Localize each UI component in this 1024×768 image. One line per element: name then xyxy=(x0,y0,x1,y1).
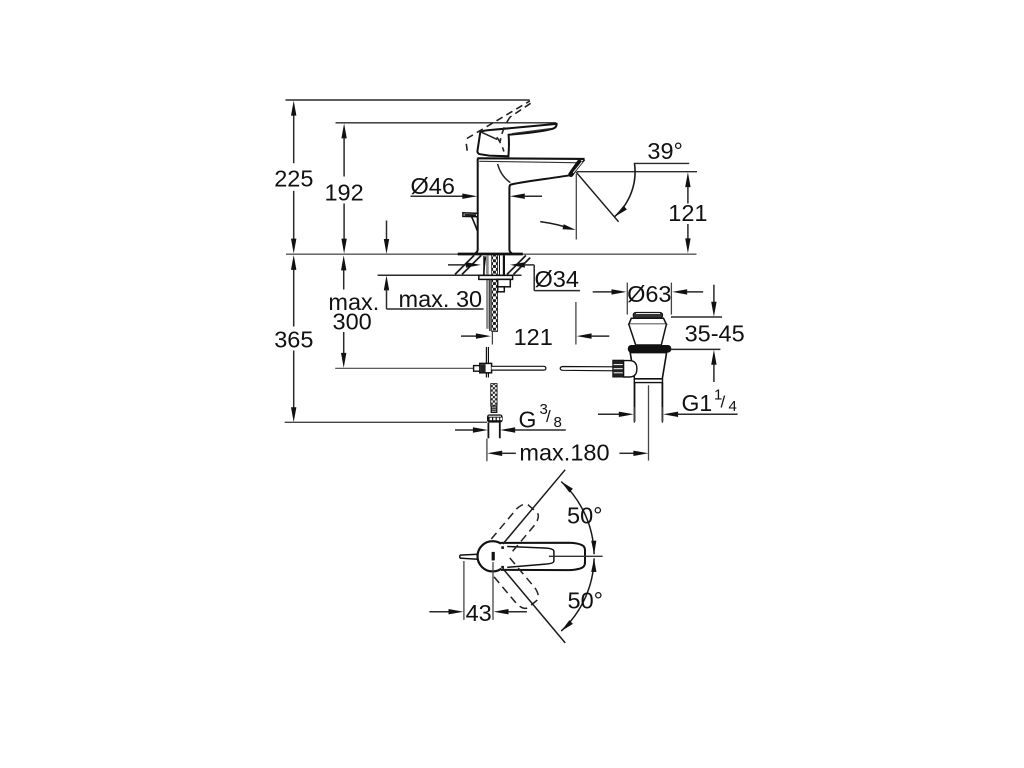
counter underside line xyxy=(378,274,522,276)
svg-text:/: / xyxy=(546,407,551,426)
svg-text:43: 43 xyxy=(466,600,492,626)
dimension 43 xyxy=(429,561,527,626)
svg-text:8: 8 xyxy=(554,414,562,431)
lever centerline xyxy=(549,555,603,557)
dimension max.300 xyxy=(328,255,379,368)
svg-text:G1: G1 xyxy=(682,390,713,416)
drain axis line xyxy=(648,385,650,460)
faucet base plate xyxy=(458,253,523,256)
faucet body top edge xyxy=(477,157,584,160)
dimension 35-45 xyxy=(671,285,745,382)
hose end tube xyxy=(487,423,489,439)
svg-text:/: / xyxy=(721,393,726,412)
drain tailpipe xyxy=(634,383,636,422)
lever bar (solid) xyxy=(501,543,586,570)
pull-rod level extension line (max.300 bottom) xyxy=(335,367,474,369)
dimension 121 horizontal xyxy=(461,324,609,350)
lever arm inner underside line xyxy=(512,128,552,133)
drain body xyxy=(630,353,666,379)
svg-text:121: 121 xyxy=(514,324,553,350)
counter hatch right xyxy=(507,255,530,274)
spout aerator face xyxy=(577,160,585,170)
spout tip horizontal reference line xyxy=(577,171,697,173)
mounting nut xyxy=(498,279,511,286)
lever dashed at +50deg xyxy=(491,501,542,555)
extension line at hose end (365 bottom) xyxy=(285,421,487,423)
drain flange xyxy=(629,318,667,324)
dimension 225 xyxy=(274,101,313,254)
small curved arrow at spout axis xyxy=(540,222,571,229)
junction dots xyxy=(501,546,504,549)
dimension 365 xyxy=(274,255,313,422)
washer under counter xyxy=(479,275,513,279)
lever pivot circle xyxy=(478,541,508,571)
flexible hose (woven) xyxy=(491,384,497,406)
drain actuator knob (knurled) xyxy=(613,360,624,377)
50deg ray lower xyxy=(503,569,565,643)
50deg ray upper xyxy=(503,470,565,544)
lever handle (solid) xyxy=(477,124,556,156)
drain neck (tapering) xyxy=(629,324,667,345)
svg-text:225: 225 xyxy=(274,165,313,191)
hose connector xyxy=(491,406,497,412)
spout underside xyxy=(509,175,570,189)
shank guide tube left xyxy=(484,257,486,276)
counter hatch left xyxy=(455,255,481,274)
dimension Ø63 xyxy=(593,281,704,315)
lever knob (top view, left) xyxy=(460,554,478,559)
dimension max.180 xyxy=(487,440,648,466)
drain seal ring (dark) xyxy=(628,345,672,353)
extension line faucet axis bottom (max.180 left) xyxy=(486,439,488,462)
dimension 192 xyxy=(324,123,363,253)
spout inner curve xyxy=(498,164,511,183)
dimension G1 1/4 xyxy=(598,387,738,423)
drain step rim xyxy=(634,379,662,383)
39deg reference line xyxy=(634,162,689,164)
shank right tube xyxy=(503,255,505,275)
tee left end fitting xyxy=(474,366,480,372)
threaded shank xyxy=(492,255,498,332)
svg-text:50°: 50° xyxy=(567,502,603,528)
horizontal actuating rod segment 1 xyxy=(492,366,546,370)
pull rod tee vertical rod xyxy=(485,347,487,378)
lever grip inset xyxy=(507,547,554,568)
dimension max.30 xyxy=(384,221,484,312)
svg-text:max.180: max.180 xyxy=(519,440,609,466)
svg-text:Ø63: Ø63 xyxy=(627,281,671,307)
pull rod (gray) xyxy=(486,255,489,329)
svg-text:121: 121 xyxy=(668,200,707,226)
drain actuator cylinder xyxy=(624,361,637,377)
svg-text:39°: 39° xyxy=(647,138,683,164)
reference line 225 (top, y=100) xyxy=(286,99,530,101)
pivot mark xyxy=(492,552,495,561)
svg-text:max. 30: max. 30 xyxy=(399,286,483,312)
50deg arc lower xyxy=(561,558,594,631)
label Ø46 with leader xyxy=(411,173,543,199)
pull-rod knob on body xyxy=(463,213,478,217)
dimension Ø34 with leader xyxy=(448,262,580,292)
reference line 192 (y=122.8) xyxy=(336,122,557,124)
svg-text:35-45: 35-45 xyxy=(685,321,745,347)
drain pop-up plug cap xyxy=(633,312,662,318)
svg-text:300: 300 xyxy=(333,309,372,335)
svg-text:Ø46: Ø46 xyxy=(411,173,455,199)
horizontal actuating rod segment 2 xyxy=(560,367,614,371)
tee block xyxy=(480,363,492,372)
lever raised position (dashed) xyxy=(466,101,530,152)
svg-text:G: G xyxy=(519,406,537,432)
dimension G3/8 xyxy=(455,401,566,433)
svg-text:4: 4 xyxy=(729,398,737,415)
50deg arc upper xyxy=(561,482,594,555)
faucet body top chamfer line xyxy=(479,161,581,163)
lever inner line xyxy=(481,132,497,140)
svg-text:Ø34: Ø34 xyxy=(535,266,579,292)
G3/8 nut xyxy=(487,414,503,422)
counter top line xyxy=(286,253,697,255)
svg-text:192: 192 xyxy=(324,180,363,206)
39deg arc with arrow xyxy=(615,164,635,217)
faucet body left edge xyxy=(475,158,478,253)
lever dashed at -50deg xyxy=(491,558,542,612)
svg-text:365: 365 xyxy=(274,326,313,352)
dimension 121 vertical (spout height) xyxy=(668,172,707,253)
svg-text:50°: 50° xyxy=(568,588,604,614)
extension line below spout tip xyxy=(575,174,577,240)
water stream direction line xyxy=(576,172,618,222)
faucet body right edge xyxy=(509,189,512,254)
